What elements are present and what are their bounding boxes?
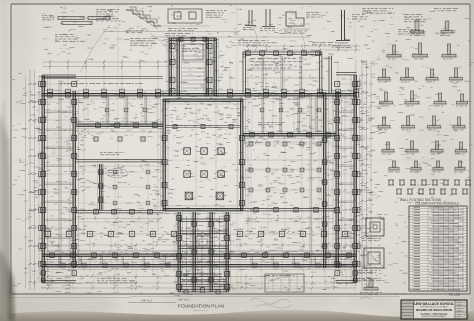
north wall exterior footing bumps [48, 89, 359, 92]
stair step detail top-left [126, 7, 161, 33]
south wing footing row centerline [44, 233, 356, 235]
east wing partitions [338, 111, 354, 257]
east wing bottom cap wall [336, 280, 357, 282]
northeast block footings on top wall [246, 51, 321, 56]
top-right wall section pair [404, 8, 458, 36]
bottom dim string 2 [44, 281, 356, 285]
east court footings [249, 142, 321, 192]
east wing corridor wall [324, 92, 326, 268]
west court divider footings [99, 170, 103, 202]
east wing corridor wall footings [322, 138, 327, 249]
west wing outer wall footings [41, 82, 46, 283]
tall column section detail top-right-center [332, 10, 368, 48]
top-right text block [362, 8, 426, 35]
main north wall [42, 94, 356, 96]
north wing second wall west [76, 124, 163, 126]
footing centerlines east wing [330, 84, 368, 264]
south wing partitions [59, 256, 337, 264]
column base detail 2 [260, 9, 278, 31]
east wing outer wall [354, 75, 356, 283]
small section detail above title block [360, 279, 382, 295]
west wing corridor line [59, 80, 61, 268]
north entrance steps [182, 44, 205, 88]
left dimension chains [24, 70, 37, 290]
south stage projection walls [176, 212, 230, 292]
dim string right of central block [246, 100, 250, 232]
title block [401, 300, 467, 319]
south wall footings [50, 253, 352, 258]
south wing wall 1 [42, 254, 356, 256]
north wing partitions east [262, 96, 318, 133]
interior dimension chain east court [244, 140, 335, 144]
central block walls [160, 96, 245, 213]
unit match line labels [128, 299, 190, 303]
interior dimension vertical mid-east [343, 96, 347, 236]
top strip long line 2 [150, 36, 310, 38]
north rooms south wall west [76, 159, 163, 161]
top-center plan detail [160, 9, 227, 31]
west wing inner wall footings [72, 82, 77, 276]
column footing schedule table [409, 206, 467, 291]
west court room label oval [106, 169, 128, 178]
north entrance projection walls [167, 38, 218, 96]
top dimension chains [42, 44, 360, 68]
east court dim lines [245, 160, 335, 169]
wall footing section details grid [376, 43, 470, 172]
small pier plan glyph row 2 [396, 189, 468, 194]
east wing inner wall [336, 91, 338, 268]
north wing partitions west [107, 96, 147, 124]
interior dimension vertical mid-west [82, 96, 86, 236]
west wing inner wall [73, 91, 75, 268]
east court partition line [310, 94, 312, 266]
south corridor line [44, 250, 354, 252]
south wing footing row [45, 231, 347, 236]
top strip extra notes 3 [238, 40, 277, 46]
bottom-left paper edge diagonal [1, 252, 13, 321]
foundation plan title [178, 304, 224, 313]
footing centerlines north wall [50, 60, 356, 100]
west wall exterior footing bumps [39, 82, 42, 267]
lintel detail bars top-left [42, 15, 110, 25]
north rooms footing row west 2 [94, 137, 145, 141]
top strip extra notes 4 [312, 42, 337, 45]
north entrance interior detail [182, 44, 203, 60]
paper right edge shadow [470, 0, 474, 321]
bottom-left corner dark blotch [0, 248, 15, 321]
north wall footings [48, 92, 359, 97]
bottom dimension chains [44, 275, 356, 290]
west wing bottom cap wall [42, 280, 76, 282]
east court bottom wall footings [254, 208, 318, 212]
south wall extra line [44, 259, 354, 261]
east wall exterior footing bumps [357, 82, 360, 267]
west wing top cap wall [42, 74, 76, 76]
central block pilasters right wall [240, 136, 245, 206]
north corridor line west [76, 131, 163, 133]
south stage interior details [178, 216, 229, 290]
typical pier detail concentric squares 1 [362, 218, 384, 241]
long leader line top [103, 31, 240, 33]
west wing partitions [44, 111, 73, 257]
paper left edge line [3, 100, 9, 321]
central block interior dim line [214, 102, 218, 208]
paper left edge light band [0, 0, 8, 321]
west court interior footings [113, 170, 150, 205]
general note text [97, 278, 137, 283]
west court divider wall [100, 164, 102, 210]
court dimension strings horizontal [78, 217, 334, 222]
south wing inner dim line [46, 243, 354, 247]
central block interior cross wall [165, 125, 241, 129]
leader lines top strip to plan [80, 25, 305, 73]
south stage projection footings [177, 216, 230, 290]
column base detail 1 [243, 10, 256, 30]
top strip extra notes 5 [165, 33, 193, 36]
top strip extra notes 2 [130, 38, 158, 46]
interior dimension chain west court [78, 164, 162, 168]
east wing top cap wall [336, 72, 357, 74]
west court bottom wall [76, 210, 163, 212]
dim string left of central block [156, 100, 160, 232]
south stage extra marks [184, 288, 220, 294]
north rooms centerlines [88, 96, 333, 133]
small pier schedule table bottom center [265, 274, 304, 292]
paper left edge shadow [0, 110, 10, 321]
paper top edge shadow [0, 0, 474, 3]
central block interior footings [184, 148, 225, 200]
footings on second wall west [96, 123, 158, 128]
top strip extra notes 1 [55, 34, 85, 42]
age blotches [48, 31, 456, 307]
east court bottom wall [243, 208, 336, 210]
typical wall note [356, 278, 385, 281]
northeast block interior lines [246, 58, 319, 78]
small pier plan glyph row 1 [388, 180, 471, 185]
north wing second wall east [243, 134, 336, 136]
pencil scribbles below border [250, 298, 372, 309]
north wing upper band label [60, 83, 143, 84]
west court bottom wall footings [94, 209, 153, 214]
northeast block outline [243, 52, 331, 93]
west wing outer wall [42, 75, 44, 283]
north entrance footings [170, 37, 212, 93]
south wing wall 2 [42, 265, 356, 267]
note text west court [100, 152, 124, 155]
top-left note text block [96, 9, 121, 21]
court centerlines west [78, 162, 162, 232]
northeast block partitions [262, 56, 302, 91]
east wing outer wall footings [353, 82, 358, 283]
paper bottom edge shadow [0, 310, 474, 321]
typical pier detail concentric squares 2 [358, 248, 384, 273]
north rooms footing row west [105, 108, 147, 112]
right dimension chains [360, 60, 373, 290]
footing centerlines south wing [48, 228, 345, 272]
footings on second wall east [250, 132, 331, 137]
south wall 2 footings [61, 263, 341, 267]
north rooms footing row east [260, 108, 321, 112]
central block center dim line [195, 102, 197, 207]
west court room label text [108, 170, 125, 176]
footing centerlines west wing [29, 84, 80, 264]
pit detail top-center-right [282, 12, 322, 34]
central block pilasters left wall [162, 136, 167, 206]
court centerlines east [244, 138, 335, 232]
north wing upper wall line [42, 76, 163, 78]
note text east court [258, 122, 285, 125]
extension lines bottom [52, 270, 346, 290]
east wing inner wall footings [335, 82, 340, 276]
